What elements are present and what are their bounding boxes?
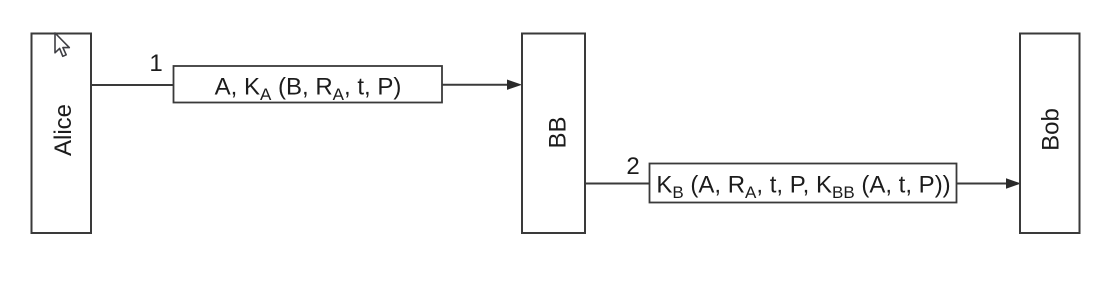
svg-text:KB (A, RA, t, P, KBB (A, t, P): KB (A, RA, t, P, KBB (A, t, P)) xyxy=(656,172,950,203)
svg-text:BB: BB xyxy=(545,116,572,148)
actor box Alice xyxy=(32,34,92,234)
svg-text:Bob: Bob xyxy=(1038,108,1065,151)
arrowhead into BB xyxy=(508,80,521,89)
wire Alice to message box 1 xyxy=(91,84,174,86)
actor box BB xyxy=(522,34,585,234)
wire message box 1 to BB xyxy=(442,84,509,86)
svg-text:1: 1 xyxy=(149,50,162,77)
svg-text:Alice: Alice xyxy=(50,104,77,156)
svg-text:A, KA (B, RA, t, P): A, KA (B, RA, t, P) xyxy=(215,73,402,104)
message box 1 xyxy=(174,66,443,103)
message box 2 xyxy=(650,164,957,203)
actor box Bob xyxy=(1020,34,1080,234)
wire message box 2 to Bob xyxy=(957,183,1009,185)
arrowhead into Bob xyxy=(1007,179,1020,188)
svg-text:2: 2 xyxy=(626,153,639,180)
mouse cursor xyxy=(55,33,69,56)
wire BB to message box 2 xyxy=(585,183,650,185)
